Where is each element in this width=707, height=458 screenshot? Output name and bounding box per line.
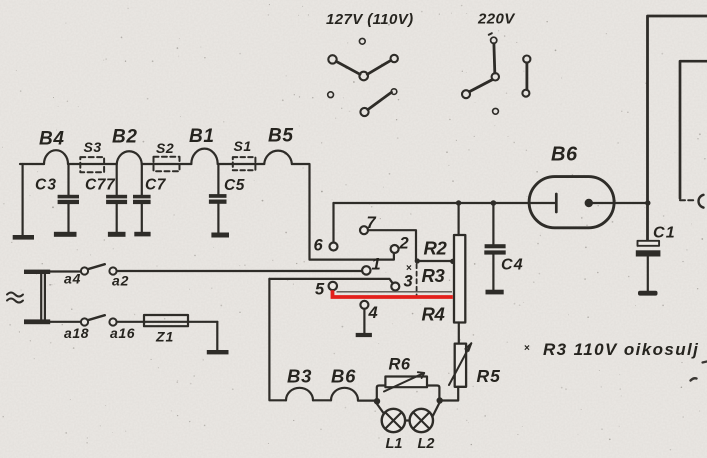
- wire: [458, 323, 460, 344]
- wire: [50, 270, 80, 272]
- lamp L2: [410, 409, 433, 432]
- switch S2: [154, 157, 180, 171]
- svg-text:a18: a18: [64, 325, 89, 341]
- ground: [207, 350, 229, 354]
- ground: [134, 232, 150, 237]
- junction: [645, 200, 650, 205]
- fuse Z1: [144, 315, 188, 326]
- capacitor C77: [106, 164, 127, 232]
- svg-text:S3: S3: [84, 139, 102, 155]
- svg-text:B5: B5: [268, 126, 294, 147]
- ground: [638, 291, 658, 296]
- svg-text:6: 6: [314, 237, 324, 255]
- wire node 4: [363, 309, 365, 333]
- ground: [54, 232, 77, 237]
- node 5: [329, 282, 337, 290]
- svg-text:a4: a4: [64, 271, 81, 287]
- svg-text:a16: a16: [110, 325, 135, 341]
- svg-text:×: ×: [524, 343, 530, 354]
- junction node lamp right: [437, 398, 442, 403]
- junction: [456, 200, 461, 205]
- wire anode bus: [334, 202, 555, 204]
- svg-text:C5: C5: [224, 177, 245, 194]
- wire outer frame right: [648, 16, 707, 241]
- AC source symbol: [7, 293, 23, 303]
- svg-text:127V (110V): 127V (110V): [326, 11, 414, 28]
- junction: [415, 258, 420, 263]
- junction node lamp left: [375, 399, 380, 404]
- voltage selector 127V contacts: [328, 38, 398, 116]
- resistor R6: [384, 372, 427, 391]
- svg-text:R6: R6: [389, 356, 411, 374]
- node 4: [360, 301, 368, 309]
- node 6: [330, 243, 338, 251]
- ground: [356, 333, 372, 337]
- wire: [614, 202, 647, 204]
- wire to node 3: [269, 279, 392, 283]
- switch a4: [81, 264, 117, 274]
- switch S3: [80, 157, 104, 172]
- tube B6: [529, 177, 614, 228]
- lamp L1: [382, 409, 405, 432]
- wire main LC chain top: [20, 163, 44, 165]
- svg-text:C77: C77: [85, 177, 116, 194]
- svg-text:R4: R4: [422, 304, 445, 325]
- wire between lamps: [405, 419, 410, 421]
- svg-text:a2: a2: [112, 273, 129, 289]
- inductor B6 heater: [331, 388, 358, 401]
- svg-text:C3: C3: [35, 177, 57, 194]
- wire to node 1: [117, 270, 362, 272]
- svg-text:B4: B4: [39, 129, 65, 150]
- ground: [486, 290, 504, 295]
- svg-text:C1: C1: [653, 225, 676, 242]
- wire heater loop left: [269, 279, 286, 400]
- svg-text:5: 5: [315, 281, 325, 299]
- wire lamp top rail: [377, 386, 440, 400]
- svg-text:1: 1: [372, 256, 381, 274]
- wire: [142, 163, 192, 165]
- wire lamp bottom rail left: [377, 404, 384, 413]
- wire: [358, 400, 375, 402]
- switch S1: [233, 157, 256, 170]
- resistor R2/R3/R4 body: [454, 235, 465, 323]
- svg-text:220V: 220V: [477, 11, 516, 28]
- node 2: [391, 245, 399, 253]
- wire: [458, 203, 460, 235]
- svg-text:R2: R2: [424, 238, 448, 259]
- wire to node 2: [292, 164, 394, 260]
- inductor B2: [117, 151, 142, 164]
- svg-text:B3: B3: [287, 366, 312, 387]
- wire: [68, 163, 117, 165]
- R3 tap dashed line: [416, 264, 418, 295]
- inductor B3: [286, 388, 313, 401]
- svg-text:B6: B6: [331, 366, 356, 387]
- svg-text:×: ×: [406, 263, 412, 274]
- ground: [211, 233, 229, 238]
- svg-text:S2: S2: [156, 140, 174, 156]
- svg-text:R3: R3: [422, 265, 446, 286]
- wire lamp bottom rail right: [433, 403, 440, 417]
- ground: [13, 235, 34, 240]
- wire: [117, 321, 218, 323]
- red correction wire node5 to R3/R4 tap: [333, 290, 453, 297]
- svg-text:B2: B2: [112, 127, 138, 148]
- wire node6 stub: [332, 203, 334, 243]
- svg-text:L1: L1: [386, 436, 403, 452]
- wire: [313, 399, 331, 401]
- wire dashed stub: [680, 199, 696, 201]
- wire left drop: [22, 164, 24, 235]
- capacitor C5: [209, 164, 227, 233]
- svg-text:B1: B1: [189, 126, 215, 147]
- svg-text:R3 110V oikosulj: R3 110V oikosulj: [543, 340, 699, 359]
- wire: [50, 321, 80, 323]
- svg-text:S1: S1: [234, 138, 252, 154]
- node 3: [391, 283, 399, 291]
- capacitor C7: [133, 164, 151, 232]
- mains plug: [24, 270, 50, 325]
- terminal at right edge: [699, 195, 704, 208]
- inductor B5: [264, 151, 292, 164]
- inductor B1: [191, 149, 217, 164]
- svg-text:3: 3: [404, 273, 413, 291]
- capacitor C4: [484, 203, 505, 290]
- svg-text:4: 4: [368, 304, 378, 322]
- switch a18/a16: [81, 315, 117, 325]
- svg-text:2: 2: [399, 235, 409, 253]
- wire inner frame right: [680, 61, 707, 198]
- node 7: [360, 226, 368, 234]
- junction: [491, 200, 497, 206]
- capacitor C1: [636, 241, 661, 291]
- wire from node 7: [368, 230, 453, 261]
- junction: [450, 259, 455, 264]
- wire: [216, 322, 218, 350]
- svg-text:Z1: Z1: [155, 329, 174, 345]
- voltage selector 220V contacts: [462, 33, 530, 114]
- svg-text:C7: C7: [145, 177, 167, 194]
- node 1: [362, 266, 370, 274]
- svg-text:R5: R5: [477, 366, 501, 386]
- wire: [218, 163, 265, 165]
- svg-text:B6: B6: [551, 144, 578, 166]
- svg-text:C4: C4: [501, 257, 524, 274]
- svg-text:L2: L2: [418, 436, 435, 452]
- wire: [442, 387, 459, 401]
- inductor B4: [44, 150, 68, 164]
- svg-text:7: 7: [367, 214, 377, 232]
- capacitor C3: [58, 164, 79, 232]
- wire node5 to R3/R4 tap: [337, 291, 453, 293]
- resistor R5: [449, 343, 471, 387]
- ground: [108, 232, 126, 237]
